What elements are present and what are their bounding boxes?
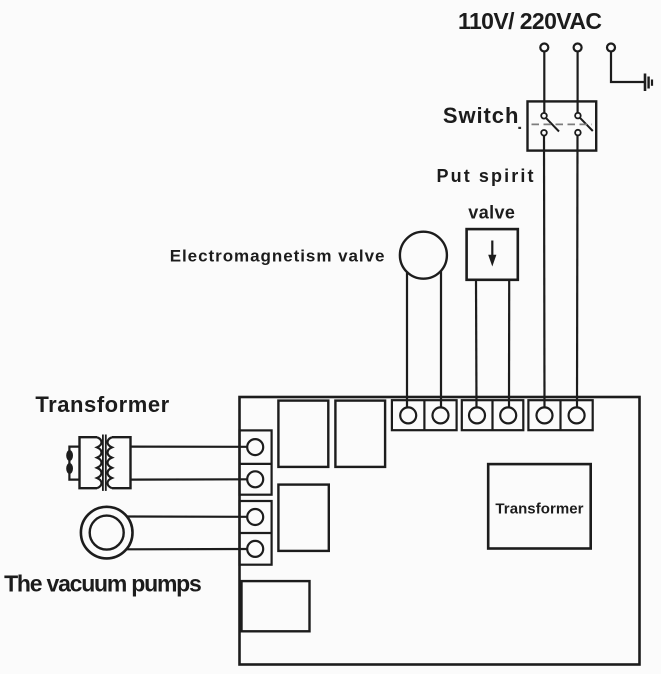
leader tick under Switch label [518,127,521,129]
wire transformer secondary to terminal 8 [131,478,248,481]
vacuum pump M1 [81,507,133,559]
label Electromagnetism valve [170,246,385,265]
svg-text:Switch: Switch [443,103,519,128]
terminal L1 [540,44,548,52]
wire L1 to switch [543,52,545,114]
wire PE to ground [611,52,644,83]
svg-text:valve: valve [468,203,515,223]
terminal block TB5 (left, terminals 9-10) [240,501,272,565]
terminal L2 [574,44,582,52]
label Switch [443,103,519,128]
terminal block TB1 (top, terminals 1-2) [392,400,457,430]
wire valve V1 right lead to terminal 4 [508,280,510,408]
relay K3 [278,485,328,551]
ground [645,74,652,92]
wire L2 to switch [576,52,578,114]
wire switch pole A to board terminal 5 [543,136,546,408]
relay K2 [335,401,385,467]
terminal block TB4 (left, terminals 7-8) [240,430,272,494]
relay K4 [242,581,310,631]
svg-text:Electromagnetism valve: Electromagnetism valve [170,246,385,265]
label 110V/220VAC supply [458,8,602,34]
svg-text:Transformer: Transformer [495,500,583,517]
label Put spirit valve [437,166,534,222]
wire switch pole B to board terminal 6 [576,135,579,408]
transformer T1 [80,435,131,491]
relay K1 [278,401,328,467]
switch S1 pole A [541,113,559,136]
switch S1 box [528,101,597,150]
wire transformer secondary to terminal 7 [131,446,248,448]
svg-text:110V/ 220VAC: 110V/ 220VAC [458,8,602,34]
control board outline [240,397,640,665]
svg-text:Transformer: Transformer [35,392,169,417]
wire solenoid right lead to terminal 2 [440,271,442,408]
label Transformer [35,392,169,417]
terminal block TB2 (top, terminals 3-4) [462,400,524,430]
wire solenoid left lead to terminal 1 [406,272,408,408]
label The vacuum pumps [4,571,202,597]
terminal block TB3 (top, terminals 5-6) [528,400,592,430]
on-board transformer T2 [488,464,591,548]
svg-text:The vacuum pumps: The vacuum pumps [4,571,202,597]
switch S1 pole B [575,113,593,136]
wire valve V1 left lead to terminal 3 [475,280,478,408]
transformer T1 primary leads and plug [66,447,79,480]
terminal PE [607,44,615,52]
wire pump to terminal 10 [127,548,248,550]
switch linkage dashed [532,123,593,125]
put spirit valve V1 [467,229,518,280]
wire pump to terminal 9 [127,515,248,517]
electromagnetism valve Y1 (solenoid) [400,232,447,279]
